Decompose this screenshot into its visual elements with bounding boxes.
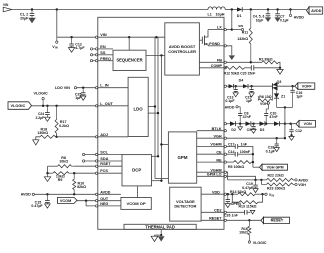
wire GPM LO row internal <box>197 175 224 177</box>
block GPM <box>168 132 196 183</box>
capacitor C15 1uF pump <box>251 86 253 89</box>
resistor R11 132k from AVDD rail <box>250 10 252 29</box>
node junction C12b <box>289 123 291 125</box>
svg-text:R23 100kΩ: R23 100kΩ <box>267 187 285 191</box>
node junction LX drop <box>231 8 233 10</box>
ground below C25 <box>80 96 86 100</box>
wire rail V2 <box>157 37 159 156</box>
wire VIN internal rail <box>98 36 165 38</box>
svg-text:D2: D2 <box>231 128 236 132</box>
wire LX external <box>226 29 231 31</box>
ground open below thermal pad <box>155 234 162 236</box>
wire VGHM row internal <box>197 145 224 147</box>
node junction comp ground <box>279 67 281 69</box>
svg-text:VIN: VIN <box>100 33 107 37</box>
node junction R16 <box>248 219 250 221</box>
wire VDD row external <box>226 193 238 195</box>
wire C17 to vertical <box>237 145 253 147</box>
wire DCP to rail V2 <box>152 155 159 157</box>
wire VGHM2 row internal <box>197 171 224 173</box>
svg-text:CE: CE <box>216 150 222 154</box>
pin CD2 <box>224 211 226 213</box>
wire RESET external <box>226 219 261 221</box>
wire sequencer to boost <box>146 54 165 56</box>
svg-text:RESET: RESET <box>271 219 284 223</box>
wire D1 to AVDD flag <box>243 9 307 11</box>
node junction rail V1 LDO <box>154 105 156 107</box>
node junction FB divider <box>250 61 252 63</box>
node junction LX <box>231 28 233 30</box>
wire R23 branch down <box>260 180 262 185</box>
terminal SW tap <box>232 29 242 31</box>
ground below C24 <box>45 117 51 121</box>
capacitor C17 1nF series <box>234 144 236 149</box>
svg-text:VGH: VGH <box>298 183 306 187</box>
capacitor C12 4.7uF <box>71 37 73 44</box>
wire C20 to ground node <box>254 67 281 69</box>
pin FREQ with terminal <box>90 60 92 62</box>
capacitor C20 15nF series <box>250 65 252 70</box>
capacitor C4, 5, 6 10uF <box>267 10 269 14</box>
node junction RSET FCS ground <box>46 172 48 174</box>
node junction VLOGIC tap <box>42 105 44 107</box>
wire RESET row internal <box>201 219 224 221</box>
net flag VLOGIC <box>8 102 32 110</box>
wire AVDD row to pin <box>34 193 95 195</box>
wire drop to sequencer top <box>128 37 130 50</box>
block LDO <box>128 77 148 136</box>
svg-text:VGHM: VGHM <box>210 143 221 147</box>
pin VGHM <box>224 145 226 147</box>
svg-text:VCOM OP: VCOM OP <box>127 201 146 206</box>
svg-text:DETECTOR: DETECTOR <box>174 203 196 208</box>
node junction C28 <box>276 137 278 139</box>
svg-text:D1: D1 <box>237 14 242 18</box>
pin EN with terminal <box>90 48 92 50</box>
pin BTLK <box>224 130 226 132</box>
terminal VGH right <box>295 183 297 185</box>
terminal Vin right <box>265 193 267 195</box>
svg-text:47nF: 47nF <box>269 115 278 119</box>
terminal Vin tap <box>56 37 58 41</box>
svg-text:C12: C12 <box>295 129 302 133</box>
wire C14 to vertical <box>237 153 253 155</box>
ground below C19 <box>253 189 258 193</box>
node junction C10 bottom <box>265 123 267 125</box>
wire diode to node <box>234 85 244 87</box>
node junction C25 <box>82 87 84 89</box>
IC U1 outline <box>98 17 224 229</box>
wire thermal pad to ground <box>160 229 162 235</box>
wire VOFF return <box>277 106 293 108</box>
svg-text:10µF: 10µF <box>256 19 264 23</box>
diode D3 first <box>260 121 265 126</box>
node junction C8 bottom <box>239 123 241 125</box>
inductor L1 10uH <box>208 7 225 10</box>
svg-text:100nF: 100nF <box>240 150 251 154</box>
node junction rail V3 <box>160 54 162 56</box>
wire SS to sequencer <box>98 54 113 56</box>
svg-text:R2 39kΩ: R2 39kΩ <box>259 58 273 62</box>
node junction CE row <box>252 153 254 155</box>
node junction C24 <box>46 105 48 107</box>
wire ADJ to LDO block <box>98 136 128 138</box>
node junction C12 <box>70 36 72 38</box>
svg-text:AVDD: AVDD <box>225 106 235 110</box>
wire RSET to DCP <box>98 165 122 167</box>
svg-text:IN: IN <box>272 195 275 198</box>
wire NEG pin to VCOM OP <box>98 205 121 207</box>
wire FB internal <box>199 61 224 63</box>
ground below C12 <box>291 134 293 137</box>
node junction to Vin tap <box>56 8 58 10</box>
svg-text:SDA: SDA <box>100 157 108 161</box>
wire DCP to VCOM OP <box>137 186 139 198</box>
svg-text:L1: L1 <box>208 13 212 17</box>
node junction C16 <box>291 85 293 87</box>
wire R5 to vertical <box>251 161 253 163</box>
svg-text:10µH: 10µH <box>216 13 225 17</box>
svg-text:IN: IN <box>55 46 58 50</box>
node junction C12 ground <box>290 134 292 136</box>
ground PGND <box>229 55 235 60</box>
svg-text:DCP: DCP <box>132 168 141 173</box>
svg-text:LDO VIN: LDO VIN <box>55 86 70 90</box>
svg-text:1µF: 1µF <box>246 99 253 103</box>
svg-text:CONTROLLER: CONTROLLER <box>168 49 196 54</box>
node junction R23 branch <box>260 179 262 181</box>
svg-text:VOFF: VOFF <box>302 84 313 88</box>
svg-text:C17: C17 <box>228 142 235 146</box>
wire VGH row external <box>226 137 285 139</box>
resistor R17 6.2k <box>56 106 58 120</box>
wire VIN row to IC pin <box>57 36 96 38</box>
node junction VOFF return <box>284 106 286 108</box>
wire VGH tap to C10 <box>266 104 268 113</box>
ground FB COMP network <box>279 68 281 69</box>
svg-text:VLOGIC: VLOGIC <box>253 241 267 245</box>
wire Q3 to VOFF <box>278 85 297 87</box>
pin OUT <box>95 200 97 202</box>
wire VDD row internal <box>201 193 224 195</box>
ground solid below thermal pad <box>160 234 162 237</box>
ground below C9 <box>251 129 256 133</box>
node junction open cap <box>227 193 229 195</box>
wire rail V3 to GPM <box>161 144 168 146</box>
wire L_OUT to LDO block <box>98 105 128 107</box>
node junction rail V2 LDO <box>157 112 159 114</box>
pin RE <box>224 161 226 163</box>
capacitor C16 1uF <box>292 86 294 90</box>
svg-text:4.7µF: 4.7µF <box>75 46 85 50</box>
ground below C28 <box>274 148 279 152</box>
capacitor C7 0.1uF <box>277 10 279 14</box>
pin NEG <box>95 205 97 207</box>
block VCOM OP <box>121 198 151 210</box>
wire GPM LO external corner <box>226 176 255 180</box>
svg-text:0.47µF: 0.47µF <box>31 204 43 208</box>
node junction C7 <box>276 8 278 10</box>
svg-text:R14 51kΩ: R14 51kΩ <box>230 190 246 194</box>
node junction C4,5,6 <box>267 8 269 10</box>
ground below C15 pump <box>249 93 254 97</box>
capacitor C13 0.1uF <box>235 86 237 89</box>
node junction RE row <box>252 161 254 163</box>
capacitor C1, 2 20uF <box>31 10 33 14</box>
wire lower pump row <box>226 123 230 125</box>
ground below C13 <box>233 93 238 97</box>
svg-text:LX: LX <box>217 26 222 30</box>
node junction R13 return <box>261 193 263 195</box>
svg-text:D4: D4 <box>239 78 244 82</box>
wire VLOGIC row to L_OUT pin <box>32 105 96 107</box>
wire CE row external <box>226 153 235 155</box>
ground below C7 <box>274 17 280 22</box>
wire top rail VIN to L1 <box>12 9 208 11</box>
svg-text:82kΩ: 82kΩ <box>77 185 86 189</box>
svg-text:C9: C9 <box>247 128 252 132</box>
diode D3 second <box>274 121 279 126</box>
svg-text:47nF: 47nF <box>243 115 252 119</box>
wire BTLK row <box>197 130 224 132</box>
net flag VGH GPM <box>262 164 288 170</box>
node junction rail V2 DCP <box>157 155 159 157</box>
wire RE row external <box>226 161 233 163</box>
svg-text:Z1: Z1 <box>281 94 285 98</box>
wire to VON <box>279 123 296 125</box>
node junction pump to VGH row <box>284 123 286 125</box>
wire VGHM row external <box>226 145 235 147</box>
svg-text:THERMAL PAD: THERMAL PAD <box>145 224 174 229</box>
pin VIN <box>95 36 97 38</box>
block SEQUENCER <box>113 50 146 70</box>
wire COMP row <box>225 67 226 69</box>
wire R6 to Q3 base <box>271 99 274 101</box>
node junction internal rails <box>155 36 157 38</box>
pin SCL with terminal <box>82 153 84 155</box>
capacitor C24 2.2uF <box>46 106 48 113</box>
capacitor C25 1uF <box>82 88 84 93</box>
capacitor OPEN <box>227 194 229 199</box>
wire to node3 <box>265 123 274 125</box>
resistor R12 53k <box>225 66 245 69</box>
zener Z1 <box>276 91 278 93</box>
pin AVDD <box>95 193 97 195</box>
wire R14 to Vin terminal <box>255 193 265 195</box>
ground stub below D2 node <box>239 124 241 127</box>
svg-text:LDO: LDO <box>134 107 144 112</box>
ground below C4,5,6 <box>265 17 271 22</box>
node junction ADJ divider <box>55 136 57 138</box>
svg-text:AVDD: AVDD <box>294 15 305 19</box>
svg-text:FCS: FCS <box>100 169 108 173</box>
net flag VCOM <box>58 197 78 203</box>
node junction ground split <box>160 234 162 236</box>
node junction VGH pump <box>284 137 286 139</box>
wire C26 to ground <box>247 211 251 213</box>
svg-text:132kΩ: 132kΩ <box>237 37 248 41</box>
svg-text:L_IN: L_IN <box>100 84 109 88</box>
capacitor C14 100nF series <box>234 152 236 157</box>
wire DCP to rail V3 <box>152 180 162 182</box>
pin GPM LO <box>224 175 226 177</box>
capacitor C9 to ground <box>253 124 255 127</box>
resistor R22 22k <box>267 178 294 181</box>
resistor R23 100k <box>261 183 266 185</box>
wire VGHM2 external corner <box>226 172 227 180</box>
svg-text:BTLK: BTLK <box>212 127 222 131</box>
terminal AVDD right <box>295 179 297 181</box>
wire LDO VIN to L_IN pin <box>77 87 96 89</box>
wire to Q3 <box>248 85 272 87</box>
svg-text:20µF: 20µF <box>20 16 29 20</box>
wire AVDD pin to VCOM OP <box>98 193 121 195</box>
wire LDO out to rail V1 <box>148 106 155 108</box>
svg-text:1µF: 1µF <box>296 94 303 98</box>
wire rail V1 to GPM <box>155 178 168 180</box>
pin RSET <box>95 165 97 167</box>
wire to node2 <box>251 123 260 125</box>
wire drop to VIN row <box>56 10 58 38</box>
terminal AVDD tap <box>290 10 292 15</box>
wire COMP internal <box>199 67 224 69</box>
svg-text:R12 53kΩ C20 15nF: R12 53kΩ C20 15nF <box>224 72 256 76</box>
svg-text:10kΩ: 10kΩ <box>239 231 248 235</box>
node junction R17 <box>55 105 57 107</box>
svg-text:VON: VON <box>304 122 312 126</box>
wire R8 down to ground node <box>47 166 49 173</box>
svg-text:VIN: VIN <box>3 3 9 7</box>
svg-text:VGH: VGH <box>213 134 221 138</box>
ground RSET/FCS network <box>47 173 49 176</box>
svg-text:SCL: SCL <box>100 151 108 155</box>
wire R2 to ground corner <box>279 62 281 68</box>
pin SDA with terminal <box>82 160 84 162</box>
net flag VON <box>299 121 316 128</box>
wire PGND external to ground <box>226 46 231 55</box>
svg-text:ADJ: ADJ <box>100 133 108 137</box>
svg-text:R22 22kΩ: R22 22kΩ <box>268 174 284 178</box>
wire PGND to pin <box>208 45 224 47</box>
block VOLTAGE DETECTOR <box>170 187 201 221</box>
pin VGHM2 <box>224 171 226 173</box>
resistor R6 10 <box>257 96 259 100</box>
diode D2 second <box>246 121 251 126</box>
svg-text:VLOGIC: VLOGIC <box>34 92 48 96</box>
node junction C19 top <box>254 179 256 181</box>
svg-text:GPM: GPM <box>178 155 188 160</box>
svg-text:VCOM: VCOM <box>60 199 71 203</box>
wire FCS to DCP <box>98 172 122 174</box>
ground CD2 small <box>250 210 255 214</box>
pin PGND <box>224 45 226 47</box>
node junction C13 <box>235 85 237 87</box>
ground below C12 <box>68 48 74 53</box>
svg-text:CD2: CD2 <box>214 209 222 213</box>
wire OUT pin to VCOM OP <box>98 200 121 202</box>
net flag RESET <box>264 217 290 223</box>
wire pump output drop <box>284 107 286 138</box>
wire pump row <box>226 85 228 87</box>
capacitor C26 1nF series <box>244 210 246 215</box>
resistor R10 82k <box>73 173 75 179</box>
resistor R2 39k <box>262 61 279 64</box>
net flag VOFF <box>298 83 315 89</box>
svg-text:R9: R9 <box>58 178 63 182</box>
svg-text:R5 100kΩ: R5 100kΩ <box>228 165 244 169</box>
block THERMAL PAD <box>124 224 196 229</box>
wire CD2 external <box>226 211 244 213</box>
svg-text:SEQUENCER: SEQUENCER <box>116 58 142 63</box>
pin L_OUT <box>95 105 97 107</box>
ground below C15 <box>45 204 51 208</box>
svg-text:R13 115kΩ: R13 115kΩ <box>239 204 257 208</box>
resistor R9 13k on FCS row <box>74 172 95 174</box>
node junction AVDD tap <box>289 8 291 10</box>
pin COMP <box>224 67 226 69</box>
wire LX internal <box>208 29 224 31</box>
wire VGHM resistor row <box>228 179 267 181</box>
svg-text:COMP: COMP <box>211 64 223 68</box>
node junction C1,2 <box>31 8 33 10</box>
svg-text:2.2µF: 2.2µF <box>35 116 44 120</box>
svg-text:10kΩ: 10kΩ <box>59 160 68 164</box>
svg-text:VLOGIC: VLOGIC <box>11 104 26 108</box>
node junction R13 branch <box>231 193 233 195</box>
wire VCOM to OUT pin <box>77 200 96 202</box>
node junction feedback <box>85 200 87 202</box>
ground small below D2 node <box>238 127 243 130</box>
wire EN to sequencer <box>98 48 113 50</box>
pin SS with terminal <box>90 54 92 56</box>
capacitor C19 0.47uF <box>255 180 257 185</box>
block DCP <box>122 155 152 186</box>
pin CE <box>224 153 226 155</box>
terminal VLOGIC bottom <box>248 241 250 243</box>
svg-text:GPM LO: GPM LO <box>207 173 222 177</box>
node junction C9 <box>252 123 254 125</box>
resistor R8 10k on RSET row <box>75 165 96 167</box>
ground below C1,2 <box>28 18 35 24</box>
svg-text:C26 1nF: C26 1nF <box>224 214 239 218</box>
node junction R10 bottom <box>73 193 75 195</box>
wire to node <box>235 123 245 125</box>
wire FREQ to sequencer <box>98 60 113 62</box>
svg-text:VGH: VGH <box>260 102 268 106</box>
svg-text:VDD: VDD <box>212 190 220 194</box>
svg-text:1nF: 1nF <box>241 142 248 146</box>
pin DRV2 <box>224 123 226 125</box>
wire LDO out2 to rail V2 <box>148 112 158 114</box>
svg-text:RSET: RSET <box>100 162 111 166</box>
capacitor C15 0.47uF <box>46 194 48 200</box>
input port VIN arrow <box>3 7 12 12</box>
block AVDD BOOST CONTROLLER <box>165 23 200 75</box>
wire CD2 row internal <box>201 211 224 213</box>
node junction rail V3 GPM <box>160 143 162 145</box>
capacitor C10 47nF <box>264 113 268 115</box>
svg-text:RESET: RESET <box>209 217 222 221</box>
capacitor C12 pump output <box>290 123 293 125</box>
svg-text:0.1µF: 0.1µF <box>280 19 289 23</box>
diode D4 first <box>229 84 234 88</box>
capacitor C28 0.1uF <box>276 138 278 144</box>
wire to VGH GPM flag <box>253 166 260 168</box>
node junction R11 <box>250 8 252 10</box>
ground below OPEN cap <box>225 204 230 208</box>
svg-text:FB: FB <box>217 58 222 62</box>
wire L_IN to LDO block <box>98 87 128 89</box>
